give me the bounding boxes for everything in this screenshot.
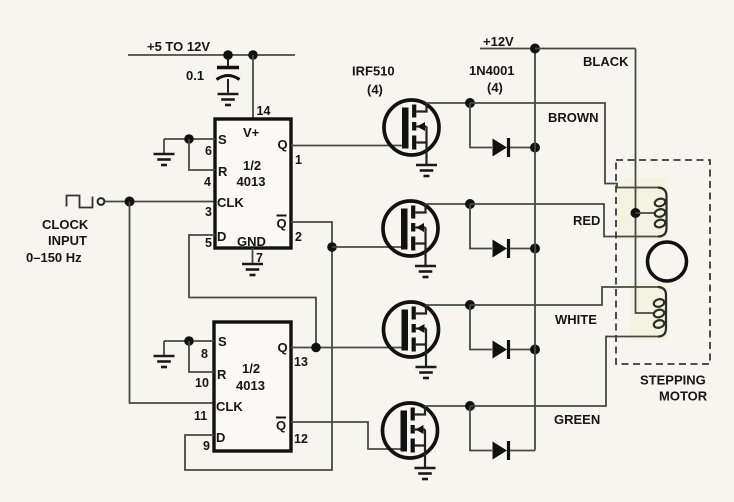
stepping motor dashed enclosure bbox=[616, 160, 710, 364]
clock input terminal bbox=[98, 198, 105, 205]
junction rail/D1 bbox=[530, 143, 540, 153]
svg-text:+12V: +12V bbox=[483, 34, 514, 49]
svg-text:MOTOR: MOTOR bbox=[659, 389, 708, 404]
svg-text:IRF510: IRF510 bbox=[352, 64, 395, 79]
wire RED (node2 to coil1 bottom) bbox=[470, 204, 658, 237]
clock pulse symbol bbox=[67, 196, 93, 208]
wire BROWN (node1 to coil1 top) bbox=[470, 103, 658, 188]
U1b Q-bar overline bbox=[276, 417, 286, 419]
wire D4 cathode to +12V rail bbox=[510, 450, 535, 452]
svg-text:WHITE: WHITE bbox=[555, 312, 597, 327]
wire drain4 to node4 bbox=[425, 405, 470, 407]
inductor coil L2 (motor winding 2) bbox=[653, 287, 666, 337]
svg-text:Q: Q bbox=[277, 216, 287, 231]
svg-text:(4): (4) bbox=[487, 80, 503, 95]
svg-text:0–150 Hz: 0–150 Hz bbox=[26, 250, 82, 265]
svg-text:1/2: 1/2 bbox=[243, 158, 261, 173]
svg-text:V+: V+ bbox=[243, 125, 260, 140]
svg-text:RED: RED bbox=[573, 213, 600, 228]
node 1 junction bbox=[465, 98, 475, 108]
svg-text:D: D bbox=[217, 229, 226, 244]
wire common tap to coil 1 bbox=[636, 212, 656, 214]
svg-text:BROWN: BROWN bbox=[548, 110, 599, 125]
svg-text:3: 3 bbox=[205, 205, 212, 219]
svg-text:Q: Q bbox=[278, 340, 288, 355]
wire gate2 bbox=[332, 246, 403, 248]
U1a pin number labels bbox=[204, 144, 302, 250]
svg-text:1: 1 bbox=[295, 153, 302, 167]
ground (capacitor C1) bbox=[218, 94, 239, 105]
junction S/R tie U1b bbox=[184, 336, 194, 346]
junction common tap coil 1 bbox=[631, 208, 641, 218]
svg-text:8: 8 bbox=[201, 347, 208, 361]
svg-text:14: 14 bbox=[257, 104, 271, 118]
transistor Q1 IRF510 bbox=[384, 100, 439, 165]
svg-text:2: 2 bbox=[295, 230, 302, 244]
U1a Q-bar overline bbox=[277, 215, 287, 217]
svg-text:Q: Q bbox=[276, 418, 286, 433]
svg-text:GND: GND bbox=[237, 234, 266, 249]
svg-text:+5 TO 12V: +5 TO 12V bbox=[147, 39, 210, 54]
svg-text:1N4001: 1N4001 bbox=[469, 63, 515, 78]
junction on supply rail (pin 14) bbox=[248, 50, 258, 60]
transistor Q2 IRF510 bbox=[383, 201, 438, 266]
ground (Q4 source) bbox=[415, 468, 436, 479]
svg-text:4: 4 bbox=[204, 175, 211, 189]
svg-text:CLOCK: CLOCK bbox=[42, 217, 89, 232]
wire drain2 to node2 bbox=[426, 203, 471, 205]
wire GND pin 7 bbox=[252, 248, 254, 264]
diode D3 1N4001 bbox=[493, 340, 509, 359]
transistor Q3 IRF510 bbox=[384, 302, 439, 367]
wire diode D3 branch bbox=[470, 305, 492, 350]
junction +12V node bbox=[530, 44, 540, 54]
svg-text:12: 12 bbox=[294, 432, 308, 446]
junction clock node bbox=[125, 197, 135, 207]
svg-text:(4): (4) bbox=[367, 82, 383, 97]
svg-text:S: S bbox=[218, 132, 227, 147]
svg-text:S: S bbox=[218, 334, 227, 349]
net +5TO12V supply rail wire bbox=[128, 54, 295, 56]
motor interior tint bbox=[618, 178, 668, 240]
diode D1 1N4001 bbox=[493, 138, 509, 157]
wire diode D2 branch bbox=[470, 204, 492, 249]
svg-text:0.1: 0.1 bbox=[186, 68, 204, 83]
svg-text:INPUT: INPUT bbox=[48, 233, 87, 248]
U1a inside labels bbox=[217, 125, 288, 249]
wire D pin 5 to Q pin 13 bbox=[189, 235, 316, 348]
ground (Q3 source) bbox=[416, 367, 437, 378]
diode D4 1N4001 bbox=[493, 441, 509, 460]
ground (U1a GND) bbox=[242, 264, 263, 275]
wire D3 cathode to +12V rail bbox=[510, 349, 535, 351]
wire D2 cathode to +12V rail bbox=[510, 248, 535, 250]
capacitor C1 0.1 bbox=[217, 55, 240, 93]
junction D5/Q13 bbox=[311, 343, 321, 353]
wire drain3 to node3 bbox=[426, 304, 470, 306]
node 4 junction bbox=[465, 401, 475, 411]
svg-text:11: 11 bbox=[194, 409, 207, 423]
ground (U1a set) bbox=[163, 139, 165, 154]
net +12V rail bbox=[480, 49, 535, 451]
inductor coil L1 (motor winding 1) bbox=[654, 188, 667, 237]
svg-text:10: 10 bbox=[195, 376, 209, 390]
wire diode D4 branch bbox=[470, 406, 492, 451]
svg-text:D: D bbox=[216, 430, 225, 445]
wire to pin 14 bbox=[252, 55, 254, 119]
junction rail/D3 bbox=[530, 345, 540, 355]
svg-text:STEPPING: STEPPING bbox=[640, 373, 706, 388]
wire Q-bar pin 12 to gate4 bbox=[291, 422, 403, 449]
svg-text:R: R bbox=[217, 367, 227, 382]
wire drain1 to node1 bbox=[427, 102, 471, 104]
wire R pin 10 tie bbox=[189, 341, 214, 372]
svg-text:9: 9 bbox=[203, 439, 210, 453]
wire clock input to CLK pin 3 bbox=[105, 201, 216, 203]
motor rotor circle bbox=[648, 242, 687, 281]
junction S/R tie bbox=[184, 134, 194, 144]
transistor Q4 IRF510 bbox=[383, 403, 438, 468]
junction rail/D2 bbox=[530, 244, 540, 254]
svg-text:5: 5 bbox=[205, 236, 212, 250]
ground (U1b set) bbox=[163, 341, 165, 356]
ground (Q1 source) bbox=[416, 165, 437, 176]
wire clock node down to CLK pin 11 bbox=[130, 202, 215, 404]
U1b inside labels bbox=[216, 334, 288, 445]
diode D2 1N4001 bbox=[493, 239, 509, 258]
wire Q pin 13 to gate3 bbox=[291, 347, 404, 349]
svg-text:1/2: 1/2 bbox=[242, 361, 260, 376]
wire S pin 6 bbox=[164, 138, 215, 140]
svg-text:4013: 4013 bbox=[237, 174, 266, 189]
ground (Q2 source) bbox=[415, 266, 436, 277]
svg-text:13: 13 bbox=[294, 355, 308, 369]
svg-text:4013: 4013 bbox=[236, 378, 265, 393]
flip-flop U1a 1/2 4013 body bbox=[215, 119, 291, 248]
label CLOCK INPUT 0-150 Hz bbox=[26, 217, 89, 265]
svg-text:CLK: CLK bbox=[216, 399, 243, 414]
wire BLACK (+12V to motor common) bbox=[535, 49, 655, 314]
wire WHITE (node3 to coil2 top) bbox=[470, 287, 658, 305]
svg-text:GREEN: GREEN bbox=[554, 412, 600, 427]
wire GREEN (node4 to coil2 bottom) bbox=[470, 337, 658, 407]
svg-text:R: R bbox=[218, 164, 228, 179]
svg-text:Q: Q bbox=[278, 137, 288, 152]
svg-text:CLK: CLK bbox=[217, 195, 244, 210]
wire Q1 to gate of Q1 FET bbox=[291, 145, 404, 147]
svg-text:6: 6 bbox=[205, 144, 212, 158]
junction on supply rail (cap) bbox=[223, 50, 233, 60]
wire D1 cathode to +12V rail bbox=[510, 147, 535, 149]
wire D pin 9 to Q-bar pin 2 riser bbox=[185, 222, 332, 470]
svg-text:BLACK: BLACK bbox=[583, 54, 629, 69]
junction gate2 tap bbox=[327, 242, 337, 252]
node 3 junction bbox=[465, 300, 475, 310]
flip-flop U1b 1/2 4013 body bbox=[214, 322, 291, 451]
U1b pin number labels bbox=[194, 347, 308, 453]
wire diode D1 branch bbox=[470, 103, 492, 148]
node 2 junction bbox=[465, 199, 475, 209]
wire S pin 8 bbox=[164, 340, 214, 342]
wire R pin 4 tie bbox=[189, 139, 215, 170]
